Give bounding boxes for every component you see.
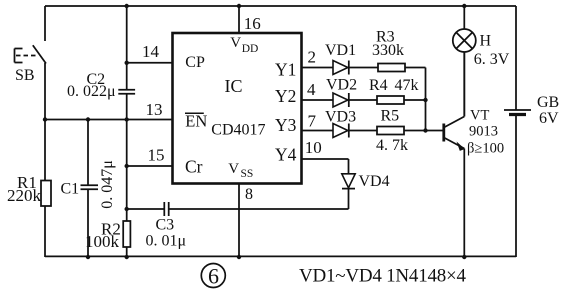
svg-text:0. 047μ: 0. 047μ (99, 160, 116, 209)
svg-text:6: 6 (208, 264, 219, 289)
svg-text:SB: SB (15, 67, 35, 84)
svg-text:V: V (228, 161, 239, 177)
svg-text:2: 2 (308, 48, 317, 67)
svg-text:7: 7 (308, 112, 317, 131)
svg-text:100k: 100k (85, 232, 120, 251)
svg-text:SS: SS (241, 168, 254, 180)
svg-text:6. 3V: 6. 3V (474, 51, 510, 68)
svg-text:VD2: VD2 (326, 77, 357, 94)
svg-text:R5: R5 (381, 108, 400, 125)
svg-text:GB: GB (537, 94, 559, 111)
svg-text:10: 10 (305, 138, 322, 157)
svg-text:4: 4 (307, 80, 316, 99)
svg-text:IC: IC (225, 76, 243, 96)
svg-text:C1: C1 (61, 181, 80, 198)
svg-text:0. 01μ: 0. 01μ (146, 233, 187, 250)
svg-text:8: 8 (245, 186, 253, 203)
svg-text:14: 14 (142, 42, 160, 61)
svg-text:Y3: Y3 (275, 115, 297, 135)
svg-text:13: 13 (146, 100, 163, 119)
svg-text:220k: 220k (7, 186, 42, 205)
svg-text:9013: 9013 (469, 124, 498, 140)
svg-text:VD3: VD3 (325, 109, 356, 126)
svg-text:DD: DD (242, 43, 259, 55)
svg-text:R4: R4 (369, 77, 388, 94)
svg-text:Cr: Cr (185, 157, 203, 177)
svg-text:47k: 47k (395, 77, 419, 94)
svg-text:VD1: VD1 (325, 42, 356, 59)
svg-text:VD1~VD4 1N4148×4: VD1~VD4 1N4148×4 (299, 266, 467, 287)
svg-text:Y4: Y4 (275, 145, 297, 165)
svg-text:330k: 330k (372, 42, 404, 59)
svg-text:Y2: Y2 (275, 86, 296, 106)
svg-text:CD4017: CD4017 (211, 122, 265, 139)
svg-text:VD4: VD4 (359, 173, 390, 190)
svg-text:VT: VT (470, 108, 489, 124)
svg-text:H: H (480, 33, 492, 50)
svg-text:CP: CP (185, 54, 205, 71)
svg-text:β≥100: β≥100 (467, 141, 504, 157)
svg-text:0. 022μ: 0. 022μ (67, 83, 116, 100)
svg-text:16: 16 (244, 14, 261, 33)
svg-text:EN: EN (185, 112, 207, 131)
svg-text:C3: C3 (156, 217, 175, 234)
svg-text:Y1: Y1 (275, 59, 296, 79)
svg-text:6V: 6V (539, 110, 559, 127)
svg-text:15: 15 (148, 146, 165, 165)
svg-text:V: V (230, 35, 241, 51)
svg-text:4. 7k: 4. 7k (376, 137, 408, 154)
